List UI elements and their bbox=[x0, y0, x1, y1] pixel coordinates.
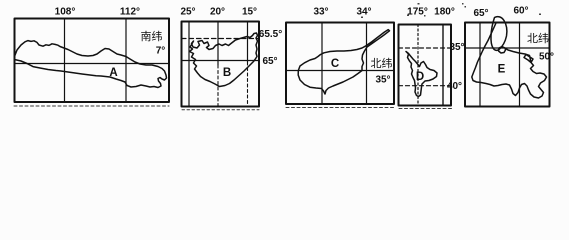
scan shadow line under panel B bbox=[182, 109, 259, 111]
svg-text:40°: 40° bbox=[447, 81, 462, 92]
panel B dashed parallel 65.5N bbox=[182, 38, 260, 40]
panel E meridian 60E bbox=[519, 23, 521, 107]
svg-text:B: B bbox=[223, 67, 231, 79]
svg-text:65°: 65° bbox=[262, 56, 277, 67]
svg-text:D: D bbox=[416, 71, 424, 83]
svg-text:108°: 108° bbox=[55, 7, 76, 18]
panel E parallel 50N bbox=[465, 47, 550, 49]
svg-text:35°: 35° bbox=[375, 75, 390, 86]
island D coastline (North Island NZ) bbox=[406, 52, 437, 97]
map panel E frame (Okhotsk region) bbox=[465, 23, 550, 107]
svg-text:112°: 112° bbox=[120, 7, 140, 18]
svg-text:175°: 175° bbox=[407, 7, 428, 18]
panel C meridian 33E bbox=[321, 23, 323, 105]
panel C meridian 34E bbox=[366, 23, 368, 105]
svg-text:A: A bbox=[109, 67, 117, 79]
svg-text:7°: 7° bbox=[156, 46, 166, 57]
svg-text:65°: 65° bbox=[473, 8, 488, 19]
panel D meridian 180 bbox=[442, 25, 444, 106]
panel A parallel 7S bbox=[15, 63, 170, 65]
svg-text:北纬: 北纬 bbox=[527, 32, 549, 45]
panel B meridian 15W bbox=[247, 22, 249, 63]
island B coastline (Iceland) bbox=[190, 33, 258, 87]
peninsula coastline (Kamchatka loop) bbox=[491, 17, 507, 51]
panel D meridian 175E dotted bbox=[417, 25, 419, 106]
svg-text:65.5°: 65.5° bbox=[259, 29, 282, 40]
svg-text:25°: 25° bbox=[180, 7, 195, 18]
panel A meridian 112E bbox=[125, 19, 127, 103]
scan shadow line under panel A bbox=[14, 105, 169, 107]
island C coastline (Cyprus) bbox=[298, 30, 389, 94]
panel B meridian 25W bbox=[188, 22, 190, 107]
panel D dashed parallel 35S bbox=[399, 47, 452, 49]
panel E meridian 65E bbox=[479, 23, 481, 107]
svg-text:15°: 15° bbox=[242, 7, 257, 18]
svg-text:180°: 180° bbox=[434, 7, 455, 18]
svg-text:E: E bbox=[498, 64, 506, 76]
map panel D frame (New Zealand North Island) bbox=[399, 25, 452, 106]
panel D dashed parallel 40S bbox=[399, 85, 452, 87]
panel B meridian 20W bbox=[217, 22, 219, 66]
map panel C frame (Cyprus) bbox=[286, 23, 394, 105]
svg-text:50°: 50° bbox=[539, 52, 554, 63]
panel C parallel 35N bbox=[286, 70, 394, 72]
svg-text:60°: 60° bbox=[513, 6, 528, 17]
svg-text:35°: 35° bbox=[449, 42, 464, 53]
scan shadow line under panel C bbox=[286, 107, 394, 109]
mainland coastline E bbox=[472, 23, 547, 98]
scan shadow line under panel D bbox=[399, 108, 452, 110]
map panel B frame (Iceland) bbox=[182, 22, 260, 107]
island A coastline (Java) bbox=[15, 41, 167, 88]
scan noise specks bbox=[361, 3, 541, 18]
svg-text:南纬: 南纬 bbox=[141, 30, 163, 43]
panel A meridian 108E bbox=[64, 19, 66, 103]
panel B parallel 65N bbox=[182, 60, 260, 62]
map panel A frame (Java) bbox=[15, 19, 170, 103]
svg-text:34°: 34° bbox=[356, 7, 371, 18]
svg-text:20°: 20° bbox=[210, 7, 225, 18]
svg-text:33°: 33° bbox=[313, 7, 328, 18]
svg-text:北纬: 北纬 bbox=[371, 57, 393, 70]
svg-text:C: C bbox=[331, 58, 339, 70]
